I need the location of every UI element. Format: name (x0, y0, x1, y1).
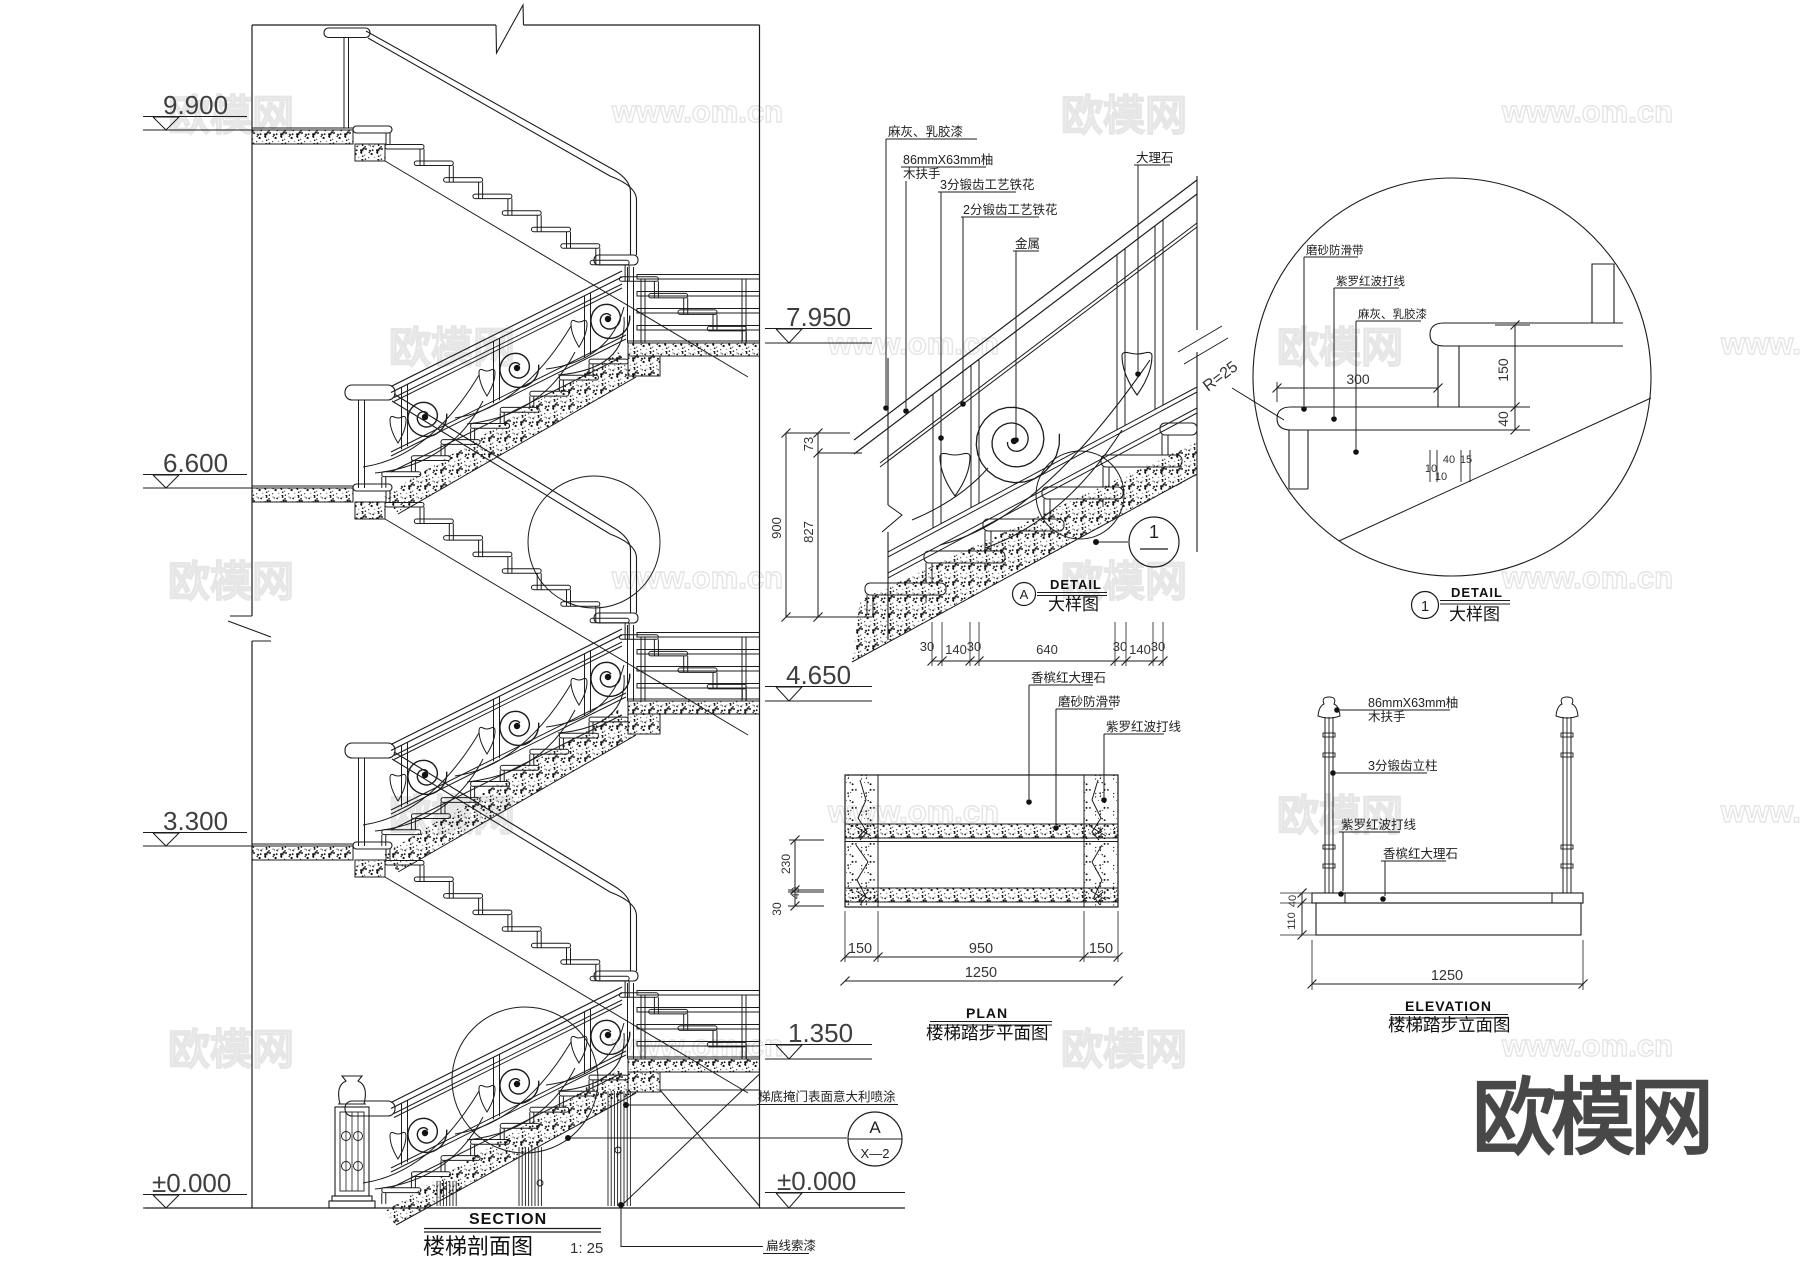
plan speckle bands (845, 824, 1118, 838)
detail 1 dim 150/40 (1514, 325, 1516, 430)
svg-text:86mmX63mm柚: 86mmX63mm柚 (1368, 695, 1458, 710)
svg-text:1250: 1250 (1431, 968, 1463, 984)
landing slab (628, 340, 760, 342)
svg-text:楼梯剖面图: 楼梯剖面图 (423, 1234, 533, 1259)
svg-text:950: 950 (969, 941, 993, 957)
svg-text:150: 150 (1089, 941, 1113, 957)
section outer walls (251, 25, 253, 616)
svg-text:140: 140 (945, 642, 967, 657)
cut flight speckled stringer (384, 1068, 636, 1225)
ground flight under-stair slats (436, 1181, 438, 1206)
svg-text:金属: 金属 (1015, 236, 1040, 251)
detail A bottom rails (888, 387, 1197, 552)
detail 1 top tread (1430, 323, 1623, 346)
railing scroll ornaments (408, 1118, 447, 1152)
railing hearts (390, 774, 406, 801)
landing rail posts (640, 279, 642, 343)
svg-text:香槟红大理石: 香槟红大理石 (1031, 670, 1106, 685)
detail A label leaders (885, 139, 887, 405)
top border break symbol (496, 5, 524, 53)
plan left dims 230/40/30 (794, 840, 796, 906)
railing balusters (401, 1103, 403, 1165)
elevation tread slab (1312, 893, 1583, 903)
detail 1 small dims (1429, 450, 1431, 482)
svg-text:ELEVATION: ELEVATION (1405, 998, 1492, 1014)
svg-text:磨砂防滑带: 磨砂防滑带 (1058, 694, 1121, 709)
handrail end scroll (345, 743, 395, 758)
svg-text:1250: 1250 (965, 965, 997, 981)
svg-text:大理石: 大理石 (1136, 151, 1174, 165)
cut flight speckled stringer (384, 710, 636, 872)
svg-text:15: 15 (1460, 454, 1472, 466)
handrail of open flight (394, 394, 631, 613)
detail A left dims 900/73/827 (785, 433, 787, 617)
cut flight treads (589, 717, 628, 722)
detail A balusters (932, 394, 934, 528)
open flight treads (behind) (385, 145, 424, 150)
landing newel cap (594, 613, 638, 623)
svg-text:30: 30 (920, 639, 934, 654)
elevation posts (1324, 717, 1326, 893)
handrail of open flight (324, 28, 370, 38)
ornate railing handrail (391, 987, 622, 1103)
floor edge nosing (353, 842, 392, 849)
svg-text:DETAIL: DETAIL (1050, 577, 1102, 592)
svg-text:30: 30 (1113, 639, 1127, 654)
svg-text:40: 40 (1495, 411, 1511, 427)
detail A callout circle A (1013, 583, 1036, 606)
landing slab (628, 698, 760, 700)
svg-text:827: 827 (801, 521, 816, 543)
svg-text:6.600: 6.600 (163, 448, 228, 478)
elevation dim 1250 (1311, 940, 1313, 990)
svg-text:木扶手: 木扶手 (903, 166, 941, 181)
svg-text:X—2: X—2 (861, 1146, 890, 1161)
floor edge nosing (353, 484, 392, 491)
railing hearts (390, 416, 406, 443)
landing guard rails (behind) (637, 991, 760, 996)
left wall break symbol (230, 615, 252, 617)
floor slab (252, 488, 353, 502)
plan dim 1250 (845, 980, 1118, 982)
railing top rail (394, 642, 622, 756)
flight stringer line (385, 519, 748, 735)
detail A sub-detail circle (1036, 451, 1124, 539)
svg-text:3.300: 3.300 (163, 806, 228, 836)
under-landing diagonals (621, 1074, 760, 1206)
ornate railing handrail (391, 629, 622, 745)
detail 1 callout (1412, 592, 1439, 619)
label under-stair door (623, 1102, 629, 1108)
svg-text:木扶手: 木扶手 (1368, 709, 1406, 724)
detail circle on ground flight (452, 1007, 598, 1153)
detail A right boundary (1196, 176, 1198, 330)
svg-text:40: 40 (1287, 895, 1299, 907)
svg-text:楼梯踏步立面图: 楼梯踏步立面图 (1388, 1015, 1511, 1035)
svg-text:3分锻齿立柱: 3分锻齿立柱 (1368, 758, 1437, 773)
leader to section bubble (565, 1135, 571, 1141)
svg-text:7.950: 7.950 (786, 302, 851, 332)
detail 1 lower riser (1288, 430, 1290, 489)
svg-text:1: 1 (1149, 522, 1159, 542)
landing rail posts (640, 995, 642, 1059)
landing slab (628, 1056, 760, 1058)
detail A left wall line (887, 358, 889, 505)
elevation post finial (1318, 697, 1340, 718)
svg-text:1: 1 (1421, 598, 1429, 615)
svg-text:30: 30 (770, 902, 784, 916)
cut flight treads (589, 359, 628, 364)
svg-text:30: 30 (967, 639, 981, 654)
cut flight speckled stringer (384, 352, 636, 514)
svg-text:PLAN: PLAN (966, 1005, 1008, 1021)
svg-text:230: 230 (779, 854, 793, 874)
newel column base (332, 1196, 372, 1201)
elevation post finial (1556, 697, 1578, 718)
svg-text:150: 150 (848, 941, 872, 957)
detail A bottom dims (932, 660, 1163, 662)
plan crack marks (858, 780, 867, 840)
svg-text:A: A (1020, 587, 1029, 602)
handrail end scroll (345, 385, 395, 400)
label flat line paint (618, 1202, 624, 1208)
detail A treads (865, 583, 946, 595)
svg-text:DETAIL: DETAIL (1451, 585, 1503, 600)
svg-text:1.350: 1.350 (788, 1018, 853, 1048)
railing bottom rails (391, 1051, 626, 1168)
svg-text:磨砂防滑带: 磨砂防滑带 (1306, 243, 1364, 257)
detail A handrail (854, 180, 1197, 440)
svg-text:140: 140 (1129, 642, 1151, 657)
railing top rail (394, 1000, 622, 1114)
floor slab (252, 130, 353, 144)
svg-text:4.650: 4.650 (786, 660, 851, 690)
detail A fan curves (940, 360, 1150, 545)
floor edge nosing (353, 126, 392, 133)
plan side caps speckle (845, 775, 878, 907)
svg-text:大样图: 大样图 (1449, 605, 1500, 624)
svg-text:900: 900 (769, 517, 784, 539)
railing bottom rails (391, 693, 626, 810)
floor slab (252, 846, 353, 860)
cut flight treads (589, 1075, 628, 1080)
svg-text:SECTION: SECTION (469, 1211, 547, 1228)
railing top rail (394, 284, 622, 398)
detail A hearts (940, 453, 970, 496)
svg-text:紫罗红波打线: 紫罗红波打线 (1341, 817, 1417, 832)
svg-text:紫罗红波打线: 紫罗红波打线 (1106, 719, 1182, 734)
handrail of open flight (394, 752, 631, 971)
svg-text:扁线索漆: 扁线索漆 (766, 1238, 816, 1253)
railing bottom rails (391, 335, 626, 452)
svg-text:1: 25: 1: 25 (570, 1240, 603, 1257)
svg-text:欧模网: 欧模网 (1472, 1071, 1709, 1165)
svg-text:73: 73 (801, 437, 816, 451)
detail 1 diagonals (1339, 398, 1651, 541)
svg-text:梯底掩门表面意大利喷涂: 梯底掩门表面意大利喷涂 (758, 1089, 896, 1104)
svg-text:±0.000: ±0.000 (777, 1166, 856, 1196)
open flight treads (behind) (385, 503, 424, 508)
detail A right break + R=25 (1178, 326, 1222, 352)
svg-text:麻灰、乳胶漆: 麻灰、乳胶漆 (888, 124, 963, 139)
landing rail posts (640, 637, 642, 701)
plan drawing outline (845, 775, 1118, 907)
svg-text:3分锻齿工艺铁花: 3分锻齿工艺铁花 (940, 177, 1034, 192)
svg-text:40: 40 (1443, 454, 1455, 466)
detail 1 lower tread (1277, 407, 1470, 430)
railing hearts (390, 1132, 406, 1159)
railing scroll ornaments (408, 760, 447, 794)
svg-text:±0.000: ±0.000 (152, 1168, 231, 1198)
handrail end scroll (345, 1101, 395, 1116)
svg-text:2分锻齿工艺铁花: 2分锻齿工艺铁花 (963, 202, 1057, 217)
svg-text:A: A (869, 1118, 881, 1137)
landing soffit line (660, 1089, 760, 1091)
plan dims 150/950/150 (844, 911, 846, 962)
detail A speckled stringer (852, 442, 1197, 662)
detail A top rail (880, 223, 1197, 463)
watermarks (168, 92, 1800, 1073)
detail 1 dim 300 (1277, 387, 1438, 389)
railing balusters (401, 745, 403, 807)
landing newel cap (594, 255, 638, 265)
newel column shaft (335, 1107, 369, 1196)
detail 1 riser face (1437, 346, 1439, 407)
flight stringer line (385, 877, 748, 1093)
svg-text:麻灰、乳胶漆: 麻灰、乳胶漆 (1358, 307, 1427, 321)
elevation dims 40/110 (1301, 893, 1303, 935)
svg-text:9.900: 9.900 (163, 90, 228, 120)
railing scroll ornaments (408, 402, 447, 436)
detail 1 big circle (1253, 178, 1651, 576)
svg-text:大样图: 大样图 (1048, 595, 1099, 614)
svg-text:110: 110 (1286, 912, 1298, 930)
svg-text:86mmX63mm柚: 86mmX63mm柚 (903, 152, 993, 167)
detail circle on flight (528, 476, 660, 608)
svg-text:300: 300 (1346, 371, 1370, 387)
svg-text:30: 30 (1151, 639, 1165, 654)
open flight treads (behind) (385, 861, 424, 866)
detail A callout 1 (1129, 517, 1179, 567)
svg-text:640: 640 (1036, 642, 1058, 657)
landing newel cap (594, 971, 638, 981)
landing guard rails (behind) (637, 633, 760, 638)
under-stair door handles (537, 1180, 543, 1186)
svg-text:10: 10 (1435, 471, 1447, 483)
svg-text:150: 150 (1495, 358, 1511, 382)
svg-text:紫罗红波打线: 紫罗红波打线 (1336, 274, 1405, 288)
railing balusters (401, 387, 403, 449)
svg-text:楼梯踏步平面图: 楼梯踏步平面图 (926, 1023, 1049, 1043)
ground line (145, 1207, 905, 1209)
svg-text:香槟红大理石: 香槟红大理石 (1383, 846, 1458, 861)
detail 1 upper riser (1592, 264, 1614, 323)
detail A scroll ornament (976, 407, 1059, 482)
ornate railing handrail (391, 271, 622, 387)
section reference bubble A/X-2 (848, 1112, 902, 1166)
landing guard rails (behind) (637, 275, 760, 280)
newel column vase (339, 1076, 366, 1104)
flight stringer line (385, 161, 748, 377)
svg-text:40: 40 (790, 887, 802, 899)
